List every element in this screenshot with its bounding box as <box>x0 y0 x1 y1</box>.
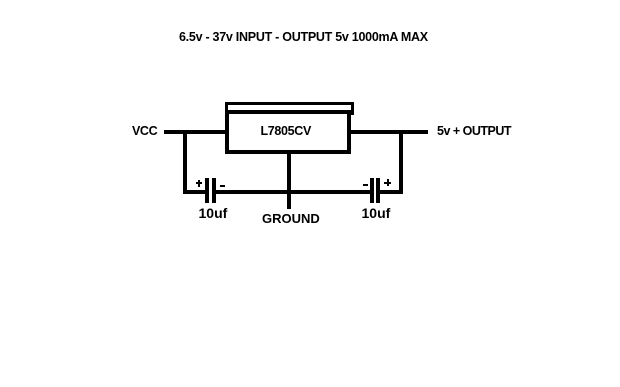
wire bottom left <box>183 190 206 194</box>
capacitor C2 <box>0 0 620 1</box>
wire bottom right <box>379 190 403 194</box>
wire right vertical <box>399 130 403 194</box>
title label <box>179 31 428 44</box>
wire input <box>164 130 229 134</box>
node VCC label <box>132 125 157 138</box>
value label C1 <box>199 206 228 220</box>
value label C2 <box>362 206 391 220</box>
ground label <box>262 212 320 225</box>
regulator U1 tab <box>225 102 355 115</box>
wire ground stub <box>287 151 291 209</box>
label L7805CV <box>261 125 312 138</box>
wire left vertical <box>183 130 187 194</box>
wire bottom middle <box>216 190 370 194</box>
node 5v output label <box>437 125 511 138</box>
wire output <box>349 130 428 134</box>
capacitor C1 <box>0 0 620 1</box>
regulator U1 body <box>225 110 351 155</box>
